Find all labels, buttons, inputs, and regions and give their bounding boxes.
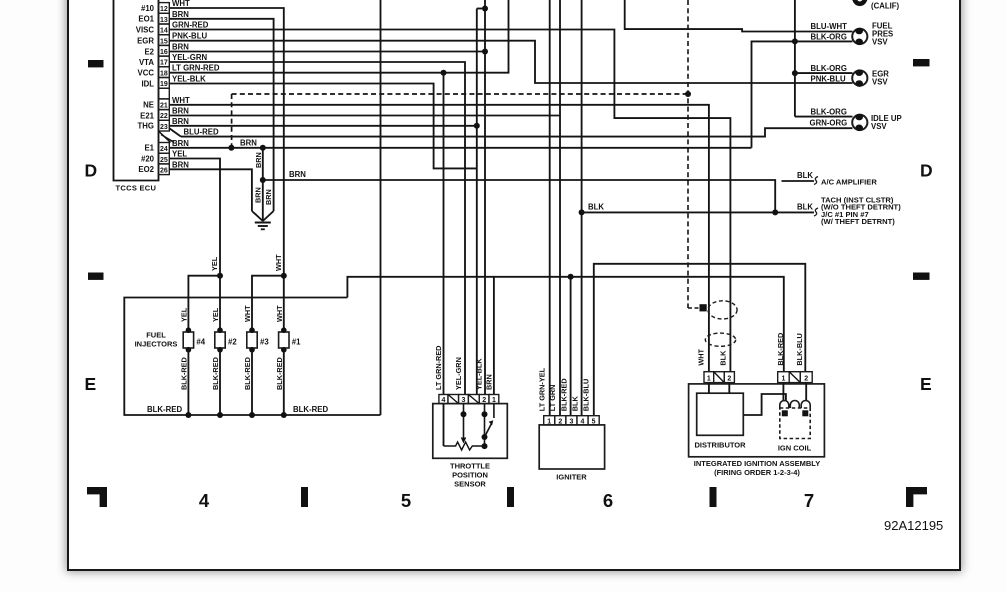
svg-text:IDL: IDL — [141, 79, 154, 88]
TPS wiper junction dot — [461, 411, 467, 417]
injector #2 coil body — [215, 332, 225, 348]
ground funnel center BRN wire from E1 — [262, 148, 264, 221]
coil pin2 wire into coil — [805, 383, 807, 402]
svg-text:THROTTLE: THROTTLE — [450, 462, 490, 471]
injector #3 lower BLK-RED wire — [251, 349, 253, 415]
injector box outline — [124, 298, 380, 416]
svg-text:YEL-BLK: YEL-BLK — [475, 358, 484, 390]
tach squiggle break — [814, 208, 818, 216]
wire BRN pin22 (E21) to igniter pin2 feed line — [169, 115, 560, 117]
svg-text:NE: NE — [143, 101, 154, 110]
svg-text:LT GRN: LT GRN — [548, 385, 557, 412]
TPS switch arm with arrowhead toward pin1 stub — [485, 423, 492, 437]
sensor ground second vertical down through THG junction to TPS pin2 — [476, 9, 478, 395]
svg-text:#4: #4 — [196, 338, 205, 347]
svg-text:E21: E21 — [140, 111, 155, 120]
svg-text:14: 14 — [160, 28, 168, 35]
wire BLK-ORG stub to EGR VSV upper — [795, 72, 853, 74]
WHT branch to injector #3 — [252, 276, 284, 330]
svg-text:BLK-RED: BLK-RED — [560, 378, 569, 411]
svg-text:SENSOR: SENSOR — [454, 480, 486, 489]
svg-text:BLK-RED: BLK-RED — [275, 357, 284, 390]
wire BLU-RED pin23 diagonal exit — [169, 128, 181, 136]
wire YEL-BLK pin19 (IDL) with jog down to TPS pin2 — [169, 84, 477, 169]
svg-text:YEL-GRN: YEL-GRN — [172, 53, 207, 62]
svg-text:BLK: BLK — [797, 203, 813, 212]
wire BRN pin26 (EO2) to ground funnel left side — [169, 169, 252, 211]
wire YEL-GRN pin17 (VTA) to TPS pin3 — [169, 62, 465, 395]
TPS pin1 stub — [493, 404, 495, 418]
corner registration mark bottom right — [906, 487, 927, 507]
A/C amplifier stub wire — [782, 180, 815, 182]
svg-text:#3: #3 — [260, 338, 269, 347]
svg-text:WHT: WHT — [172, 0, 190, 8]
TPS body box — [433, 404, 508, 459]
junction dot sensor ground top jog — [482, 6, 488, 12]
registration bar right upper — [913, 59, 930, 66]
YEL branch to injector #4 — [188, 276, 220, 330]
ignition coil symbol body dashed — [780, 408, 810, 439]
distributor pickup pin cells 1 2 with hatch — [704, 372, 714, 383]
grid tick 5-6 — [507, 487, 514, 507]
igniter pin5 wire up and over to ignition coil pin2 — [594, 264, 806, 416]
EGR VSV solenoid symbol — [852, 71, 867, 86]
svg-text:24: 24 — [160, 146, 168, 153]
coil terminal squares — [782, 410, 788, 416]
svg-text:26: 26 — [160, 168, 168, 175]
junction dot VCC to TPS pin4 — [441, 70, 447, 76]
svg-text:BLK-RED: BLK-RED — [776, 333, 785, 366]
svg-text:BRN: BRN — [172, 139, 189, 148]
svg-text:#20: #20 — [141, 154, 155, 163]
svg-text:THG: THG — [138, 122, 154, 131]
junction dot feed line to igniter pin3 — [568, 274, 574, 280]
wire WHT pin12 horizontal then down to injectors — [169, 8, 283, 276]
TPS IDL contact wire from pin2 — [484, 404, 486, 447]
svg-text:VCC: VCC — [138, 69, 155, 78]
svg-text:GRN-ORG: GRN-ORG — [810, 118, 848, 127]
svg-text:YEL-GRN: YEL-GRN — [454, 357, 463, 390]
svg-text:E2: E2 — [144, 47, 154, 56]
svg-text:BLK: BLK — [797, 171, 813, 180]
wire E1 corner up to BLK-ORG VSV feed line — [752, 41, 853, 147]
svg-text:VSV: VSV — [872, 78, 888, 87]
svg-text:BLK-RED: BLK-RED — [211, 357, 220, 390]
ECU pin 25 cell — [159, 153, 170, 164]
svg-text:BLK: BLK — [588, 203, 604, 212]
distributor inner box — [697, 393, 744, 435]
svg-text:BRN: BRN — [240, 138, 257, 147]
ECU pin 24 cell — [159, 143, 170, 154]
svg-text:15: 15 — [160, 38, 168, 45]
BLK tach wire to instrument cluster — [582, 211, 814, 213]
TPS pin cell 3 — [459, 395, 469, 404]
svg-text:GRN-RED: GRN-RED — [172, 21, 209, 30]
ECU pin 15 cell — [159, 35, 170, 46]
igniter pin 2 cell — [555, 416, 566, 425]
injector #4 terminal dots — [186, 327, 192, 333]
svg-text:A/C AMPLIFIER: A/C AMPLIFIER — [821, 178, 877, 187]
svg-text:#10: #10 — [141, 4, 155, 13]
vertical wire from page top to injector box right edge — [380, 0, 382, 415]
TPS pin cell hatch — [448, 395, 459, 404]
dashed shield vertical from page top to distributor — [687, 0, 689, 308]
svg-text:25: 25 — [160, 157, 168, 164]
wire from distributor to ignition coil primary — [743, 394, 786, 415]
wire LT GRN-RED pin18 (VCC) to TPS pin4 junction and up off-page — [169, 0, 508, 73]
wire VCC drop to TPS pin 4 — [443, 73, 445, 395]
ECU pin 26 cell — [159, 164, 170, 175]
svg-text:VSV: VSV — [872, 38, 888, 47]
svg-text:(CALIF): (CALIF) — [871, 1, 900, 10]
wire BRN pin13 to ground funnel right side — [169, 19, 273, 211]
dashed shield vertical drop at ECU side to E1 line — [231, 94, 233, 148]
svg-text:PNK-BLU: PNK-BLU — [811, 74, 846, 83]
jog stub at top of sensor ground pair — [477, 8, 485, 10]
svg-text:2: 2 — [727, 375, 731, 382]
svg-text:D: D — [920, 161, 933, 181]
injector #2 junction dot on ground rail — [217, 412, 223, 418]
registration bar left middle — [88, 273, 104, 280]
svg-text:E: E — [920, 374, 932, 394]
wire LT GRN from page top to igniter pin2 — [559, 0, 561, 416]
junction dot BRN ground drop on BLK tach line — [772, 209, 778, 215]
svg-text:IGN COIL: IGN COIL — [778, 443, 812, 452]
svg-text:2: 2 — [804, 375, 808, 382]
svg-text:YEL-BLK: YEL-BLK — [172, 75, 206, 84]
svg-text:BLK-BLU: BLK-BLU — [795, 333, 804, 365]
injector #3 coil body — [247, 332, 257, 348]
svg-text:BRN: BRN — [172, 117, 189, 126]
wire LT GRN-YEL from page top to igniter pin1 — [549, 0, 551, 416]
A/C amplifier squiggle break — [814, 177, 818, 185]
injector #1 coil body — [279, 332, 289, 348]
svg-text:DISTRIBUTOR: DISTRIBUTOR — [694, 440, 746, 449]
svg-text:BRN: BRN — [172, 43, 189, 52]
integrated ignition assembly outer box — [689, 384, 825, 457]
ECU pin 23 cell — [159, 120, 170, 131]
ground symbol — [255, 222, 271, 224]
svg-text:17: 17 — [160, 60, 168, 67]
shield cable ellipse lower — [705, 333, 735, 346]
svg-text:BRN: BRN — [484, 374, 493, 390]
igniter pin 5 cell — [588, 416, 599, 425]
svg-text:BRN: BRN — [172, 10, 189, 19]
junction dot shield to E1 BRN line — [228, 145, 234, 151]
svg-text:BRN: BRN — [253, 187, 262, 203]
svg-text:#2: #2 — [228, 338, 237, 347]
svg-text:EO2: EO2 — [138, 165, 154, 174]
registration bar right middle — [913, 273, 930, 280]
svg-text:LT GRN-YEL: LT GRN-YEL — [537, 367, 546, 411]
svg-text:BRN: BRN — [172, 107, 189, 116]
svg-text:EGR: EGR — [137, 37, 154, 46]
wire BLK-RED drop to igniter pin3 — [570, 277, 572, 416]
svg-text:YEL: YEL — [172, 150, 187, 159]
TPS pin cell 4 — [439, 395, 448, 404]
TPS pin cell hatch — [468, 395, 479, 404]
svg-text:INJECTORS: INJECTORS — [135, 340, 178, 349]
svg-text:(W/ THEFT DETRNT): (W/ THEFT DETRNT) — [821, 217, 895, 226]
ignition coil pin cells 1 2 with hatch — [778, 372, 790, 383]
svg-text:VSV: VSV — [871, 122, 887, 131]
svg-text:VTA: VTA — [139, 58, 154, 67]
svg-text:POSITION: POSITION — [452, 471, 488, 480]
svg-text:BRN: BRN — [289, 170, 306, 179]
svg-text:23: 23 — [160, 124, 168, 131]
shield termination square — [700, 304, 707, 311]
TPS IDL junction dots — [482, 411, 488, 417]
svg-text:VISC: VISC — [136, 25, 155, 34]
wire YEL pin25 (#20) down to injectors — [169, 159, 220, 276]
junction dot BLK-ORG feed at FUEL PRES VSV — [792, 38, 798, 44]
wire BLK-ORG corner to IDLE UP VSV upper — [795, 116, 853, 118]
ECU pin 20 cell — [159, 88, 170, 99]
svg-text:5: 5 — [401, 490, 411, 511]
injector #3 junction dot on ground rail — [249, 412, 255, 418]
svg-text:BLK-RED: BLK-RED — [293, 405, 328, 414]
coil pin1 wire into coil — [782, 383, 784, 402]
svg-text:E1: E1 — [144, 144, 154, 153]
injector #2 terminal dots — [217, 327, 223, 333]
ECU connector TCCS ECU outer box — [114, 0, 159, 181]
svg-text:YEL: YEL — [210, 256, 219, 271]
svg-text:1: 1 — [781, 375, 785, 382]
svg-text:BRN: BRN — [254, 152, 263, 168]
injector #4 coil body — [183, 332, 193, 348]
junction dot WHT branch — [281, 273, 287, 279]
injector #1 terminal dots — [281, 327, 287, 333]
wire BRN pin23 (THG) to sensor ground vertical junction — [169, 125, 477, 127]
svg-text:YEL: YEL — [179, 307, 188, 322]
injector #4 lower BLK-RED wire — [187, 349, 189, 415]
igniter pin 3 cell — [566, 416, 577, 425]
injector #1 lower BLK-RED wire — [283, 349, 285, 415]
wire BRN pin24 (E1) main ground run — [169, 147, 751, 149]
svg-text:TCCS ECU: TCCS ECU — [116, 184, 157, 193]
connector break diagonal between pin 23 and 24 — [159, 131, 171, 143]
svg-text:BLK-RED: BLK-RED — [243, 357, 252, 390]
wire BRN from funnel junction to A/C-TACH ground drop — [263, 180, 775, 212]
svg-text:INTEGRATED IGNITION ASSEMBLY: INTEGRATED IGNITION ASSEMBLY — [694, 459, 820, 468]
svg-text:BLK-RED: BLK-RED — [179, 357, 188, 390]
svg-text:WHT: WHT — [274, 254, 283, 271]
igniter pin 4 cell — [577, 416, 588, 425]
injector #4 junction dot on ground rail — [185, 412, 191, 418]
VSV (CALIF) cropped at top — [852, 0, 867, 4]
svg-text:WHT: WHT — [172, 96, 190, 105]
TPS internal left wire from pin4 — [443, 404, 445, 446]
svg-text:EO1: EO1 — [138, 15, 154, 24]
wire GRN-RED pin14 (VISC) right then down then to distributor pin2 drop — [169, 30, 730, 372]
ECU pin 22 cell — [159, 110, 170, 121]
svg-text:WHT: WHT — [243, 305, 252, 322]
wire BLU-WHT from page top to FUEL PRES VSV — [625, 0, 853, 32]
shield wire dashed from pin20 region along to distributor — [232, 93, 688, 95]
wire BLK-ORG main feed from page top down right side — [794, 0, 796, 117]
svg-text:BLK-ORG: BLK-ORG — [811, 64, 847, 73]
TPS pin cell 1 — [489, 395, 499, 404]
distributor pin2 wire into box — [728, 383, 730, 394]
svg-text:IGNITER: IGNITER — [556, 472, 587, 481]
TPS pin1 wire from feed line down — [493, 277, 495, 395]
svg-text:WHT: WHT — [696, 348, 705, 365]
connector break diagonal at pin 24 label side — [161, 135, 174, 143]
igniter pin 1 cell — [544, 416, 555, 425]
svg-text:BRN: BRN — [172, 160, 189, 169]
svg-text:YEL: YEL — [211, 307, 220, 322]
ECU pin 17 cell — [159, 56, 170, 67]
junction dot E2/sensor ground — [482, 49, 488, 55]
distributor pin1 wire into box — [708, 383, 710, 394]
svg-text:92A12195: 92A12195 — [884, 518, 943, 533]
svg-text:PNK-BLU: PNK-BLU — [172, 32, 207, 41]
grid tick 6-7 — [710, 487, 717, 507]
svg-text:6: 6 — [603, 490, 613, 511]
svg-text:BLU-WHT: BLU-WHT — [811, 22, 848, 31]
ECU pin 19 cell — [159, 78, 170, 89]
svg-text:BLK: BLK — [719, 350, 728, 366]
svg-text:BLK-ORG: BLK-ORG — [811, 108, 847, 117]
ground funnel right diagonal — [263, 211, 274, 221]
wire WHT pin21 (NE) to distributor pin1 — [169, 105, 709, 372]
ECU pin 14 cell — [159, 24, 170, 35]
svg-text:BLK-BLU: BLK-BLU — [581, 379, 590, 411]
junction dot funnel branch BRN right — [260, 177, 266, 183]
WHT vertical continues to injector #1 — [283, 276, 285, 330]
svg-text:1: 1 — [707, 375, 711, 382]
corner registration mark bottom left — [87, 487, 107, 507]
svg-text:18: 18 — [160, 70, 168, 77]
svg-text:4: 4 — [199, 490, 210, 511]
ECU pin 16 cell — [159, 45, 170, 56]
long BLK-RED feed line across middle (injector box top extension) — [347, 277, 783, 372]
ECU pin 12 cell — [159, 3, 170, 14]
svg-text:E: E — [85, 374, 97, 394]
svg-text:BLK: BLK — [571, 395, 580, 411]
junction dot THG/sensor ground — [474, 123, 480, 129]
svg-text:13: 13 — [160, 17, 168, 24]
junction dot on dashed shield at x=688 — [685, 91, 691, 97]
igniter body box — [539, 425, 604, 469]
svg-text:WHT: WHT — [275, 305, 284, 322]
svg-text:21: 21 — [160, 103, 168, 110]
svg-text:LT GRN-RED: LT GRN-RED — [434, 346, 443, 390]
shield cable ellipse upper — [708, 301, 737, 319]
junction dot E1 to ground funnel — [260, 145, 266, 151]
ignition coil terminal bumps — [780, 401, 789, 409]
TPS pin cell 2 — [479, 395, 489, 404]
svg-text:FUEL: FUEL — [146, 331, 166, 340]
YEL vertical continues to injector #2 — [219, 276, 221, 330]
svg-text:BLK-ORG: BLK-ORG — [811, 33, 847, 42]
grid tick 4-5 — [301, 487, 308, 507]
wire PNK-BLU pin15 (EGR) with step down to EGR VSV — [169, 41, 852, 83]
svg-text:BRN: BRN — [264, 189, 273, 205]
injector #1 junction dot on ground rail — [281, 412, 287, 418]
sensor ground vertical from page top toward TPS — [484, 0, 486, 395]
svg-text:#1: #1 — [292, 338, 301, 347]
wire BLU-RED run to IDLE UP VSV (GRN-ORG at right) — [181, 128, 853, 136]
wire BLK from page top to igniter pin4 — [581, 0, 583, 416]
injector #3 terminal dots — [249, 327, 255, 333]
registration bar left upper — [88, 60, 104, 67]
svg-text:BLK-RED: BLK-RED — [147, 405, 182, 414]
svg-text:(FIRING ORDER 1-2-3-4): (FIRING ORDER 1-2-3-4) — [714, 468, 800, 477]
svg-text:BLU-RED: BLU-RED — [184, 128, 219, 137]
wire BRN pin16 (E2) to junction with sensor-ground vertical — [169, 51, 485, 53]
IDLE UP VSV solenoid symbol — [852, 115, 867, 130]
svg-text:22: 22 — [160, 113, 168, 120]
svg-text:LT GRN-RED: LT GRN-RED — [172, 64, 220, 73]
FUEL PRES VSV solenoid symbol — [852, 29, 867, 44]
TPS wiper arrow from pin3 — [463, 404, 465, 438]
ECU pin 13 cell — [159, 13, 170, 24]
svg-text:D: D — [85, 161, 98, 181]
injector #2 lower BLK-RED wire — [219, 349, 221, 415]
TPS resistor zigzag — [444, 442, 485, 450]
ground funnel left diagonal — [252, 211, 263, 221]
svg-text:7: 7 — [804, 490, 814, 511]
svg-text:19: 19 — [160, 81, 168, 88]
ECU pin 18 cell — [159, 67, 170, 78]
junction dot BLK-ORG at EGR VSV — [792, 70, 798, 76]
junction dot YEL branch — [217, 273, 223, 279]
svg-text:12: 12 — [160, 6, 168, 13]
ECU pin 21 cell — [159, 99, 170, 110]
dashed shield horizontal into distributor wires — [688, 307, 701, 309]
junction dot BLK tach line — [579, 209, 585, 215]
svg-text:16: 16 — [160, 49, 168, 56]
